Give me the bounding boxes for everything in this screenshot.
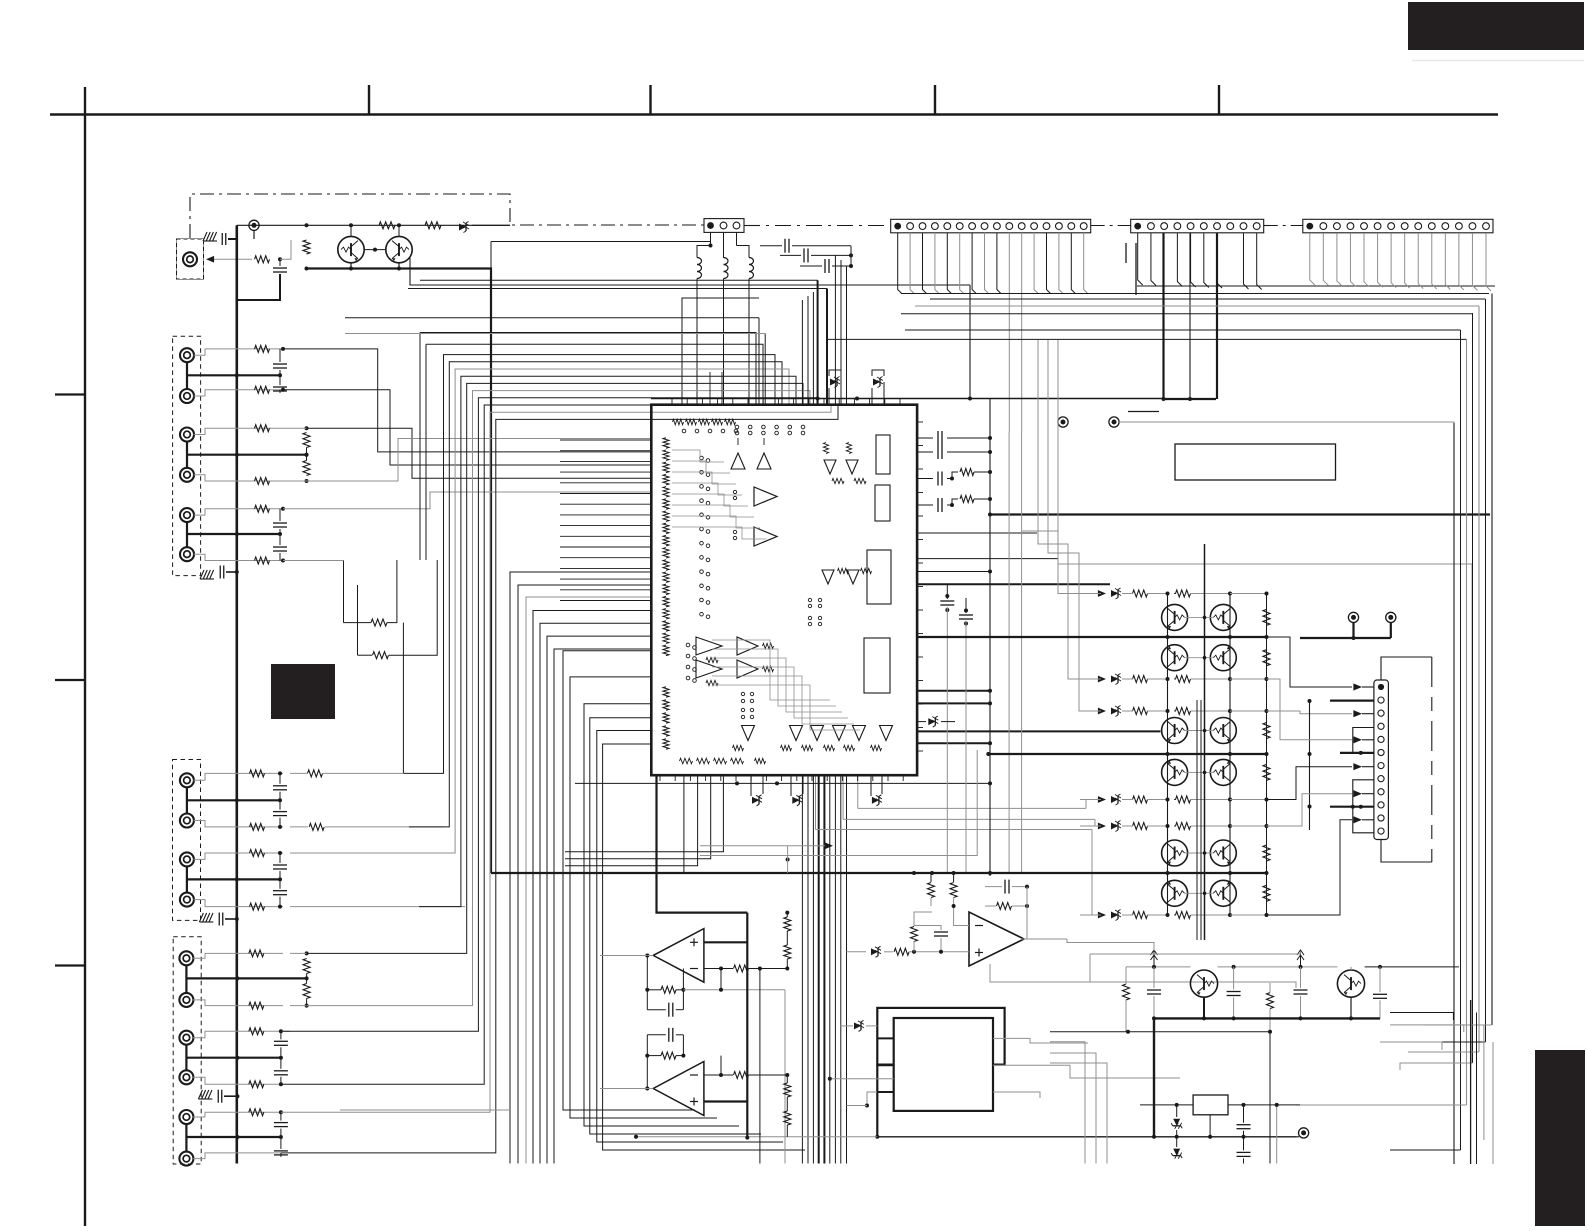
IC internal E resistor 1 (832, 478, 844, 483)
resistor above op-amp U3 2 (950, 883, 957, 898)
IC top pin risers thin (709, 372, 711, 405)
net bundle B4 drop 6 (829, 775, 831, 1163)
right margin long verticals (1470, 1000, 1472, 1164)
capacitor pair g3 tap3 (280, 1112, 282, 1120)
IC internal E resistor 2 (854, 478, 866, 483)
net bundle B4 drop 9 (846, 775, 848, 1163)
capacitor pair g3 tap2 (280, 1031, 282, 1039)
thick rail y873 (491, 872, 1267, 874)
zener below regulator 2 (1171, 1149, 1182, 1159)
IC internal rect 1 (876, 435, 890, 474)
ground + cap bottom of group2 (199, 913, 203, 922)
RCA jack J35 (179, 1110, 193, 1124)
RCA jack J22 (180, 814, 194, 828)
net IC-left drop 2 (518, 585, 651, 1164)
IC internal switch contact column (700, 456, 704, 460)
net stair 1 (1267, 637, 1353, 687)
net IC bottom elbow 4 (565, 775, 723, 852)
RCA jack J11 (180, 348, 194, 362)
title block black box top-right (1408, 2, 1584, 50)
IC right thick stub y743 (917, 742, 990, 744)
zener below IC 3 (872, 795, 882, 806)
CN103 thick drop 2 (1216, 233, 1218, 399)
capacitor C above coils 2 (803, 248, 805, 262)
power thick drop x1154 (1153, 1018, 1155, 1136)
op-amp U4 feedback cap (668, 1003, 670, 1017)
jack J31 signal wire + resistor (193, 953, 283, 958)
zener drive row y679 (1098, 676, 1106, 683)
jack pair 1-2 link (186, 362, 188, 389)
up arrow 1 (1153, 951, 1155, 965)
right bus vertical 5 (1478, 306, 1480, 1052)
transistor Q1 (338, 236, 364, 262)
net bundle B4 drop 5 (823, 775, 825, 1163)
op-amp U4 plus input thick (704, 941, 747, 943)
IC internal top resistor row (673, 419, 684, 425)
IC bottom rail (575, 782, 990, 784)
long net y280.3 (420, 279, 818, 281)
input jack J1 dashed box (177, 239, 204, 279)
cap right of IC 1 (940, 600, 954, 602)
net vertical x990 (989, 399, 991, 877)
jack tap 2 thick (187, 454, 307, 456)
net top elbow a (420, 333, 756, 405)
ground + cap bottom of group1 (200, 570, 204, 579)
wire top-right from zener (472, 224, 510, 226)
jack tap 3 thick (187, 533, 280, 535)
thick vertical x747.3 (746, 913, 748, 1138)
net riser into IC top pin 7 (826, 289, 828, 405)
right bus vertical 3 (1466, 339, 1468, 1105)
jack J14 signal wire + resistor (194, 475, 283, 481)
IC internal opamp cluster row1 b (737, 637, 758, 655)
net group1 signal 1 route (283, 349, 651, 452)
net group2/3 signal 3 route (414, 369, 789, 853)
long net y313.7 (901, 313, 1473, 315)
op-amp U4 feedback resistor (661, 986, 676, 993)
gray net into DAC 1 (830, 1078, 894, 1080)
transistor Q18 (1210, 759, 1236, 785)
net IC bottom elbow 2 (565, 775, 698, 866)
capacitor pair g2 tap1 (279, 773, 281, 783)
resistor right of U4 minus (734, 965, 749, 972)
net y1031.7 (1050, 1031, 1270, 1033)
transistor Q2 (386, 236, 412, 262)
IC internal rect 4 (864, 638, 890, 693)
RCA jack J12 (180, 389, 194, 403)
net stair 6 (1267, 820, 1353, 915)
net vertical x721 (720, 969, 722, 990)
thick net y514.5 (990, 513, 1490, 515)
empty rectangle block (1175, 444, 1336, 480)
net x1270 drop (1269, 1032, 1271, 1164)
resistor above op-amp U3 1 (928, 883, 935, 898)
long gray net y830 (816, 829, 1093, 831)
net IC-left drop 12 (597, 731, 783, 1143)
jack g2 tap 1 thick (187, 799, 280, 801)
RCA jack J33 (179, 1031, 193, 1045)
center vertical pair (1196, 700, 1198, 940)
bottom-right elbow nets (1390, 1013, 1453, 1021)
long gray net y820 (843, 818, 1095, 820)
net IC-left drop 10 (584, 704, 739, 1126)
net IC-left drop 11 (590, 718, 761, 1134)
ruler tick left 1 (55, 393, 85, 395)
ground + cap mid group3 (198, 1090, 202, 1099)
jack pair g3 5-6 link (185, 1124, 187, 1152)
inductor L3 (749, 258, 754, 265)
jack pair 3-4 link (186, 441, 188, 468)
page border vertical line (84, 115, 86, 1227)
emitter bus thick (307, 269, 492, 874)
short stub lines left of CN103 (1125, 243, 1127, 263)
RCA jack group 2 dashed box (173, 760, 201, 921)
test point TP2 (1058, 417, 1068, 427)
transistor Q22 (1210, 880, 1236, 906)
op-amp U5 (653, 1062, 704, 1116)
RCA jack group 3 dashed box (173, 937, 201, 1164)
CN103 drop 3 (1189, 233, 1191, 399)
net group1 signal 3 route (307, 428, 652, 478)
net IC-left drop 1 (510, 572, 651, 1164)
transistor Q19 (1162, 840, 1188, 866)
ruler tick left 3 (55, 964, 85, 966)
connector CN104 (14-pin) body and pins (1303, 219, 1493, 233)
coil L2 lead down to IC (723, 279, 725, 405)
net riser into IC top pin 2 (764, 334, 766, 405)
bracket pins 8-12 (1353, 780, 1374, 833)
net vertical x785 (784, 990, 786, 1164)
jack g3 tap 1 thick (186, 977, 306, 979)
IC internal bottom triangle row (742, 726, 755, 741)
op-amp U5 minus symbol (690, 1074, 698, 1076)
capacitor C above coils 1 (784, 239, 786, 253)
net riser into IC top pin 1 (758, 318, 760, 405)
net group3 signal 7 route (281, 405, 831, 1112)
net group2/3 signal 2 route (409, 362, 782, 827)
node dot J1 line (278, 257, 282, 261)
IC internal buffer triangle 1 (731, 453, 745, 469)
IC internal down triangle 1 (824, 460, 836, 474)
net group2/3 signal 6 route (307, 391, 810, 1006)
transistor Q16 (1210, 718, 1236, 744)
net IC-left drop 7 (554, 649, 651, 1164)
long net y339.4 (827, 338, 1467, 340)
IC internal opamp cluster row1 a (696, 637, 722, 655)
IC internal resistor column lower (663, 687, 669, 698)
net under U3 (990, 964, 1296, 988)
long net y306 (915, 305, 1479, 307)
CN103 thick drop 1 (1162, 233, 1164, 399)
long net y287.2 (408, 288, 827, 290)
ground cap at J1 top (203, 232, 207, 241)
DAC back box (877, 1008, 1004, 1065)
net riser into IC top pin 3 (801, 300, 803, 405)
CN102 drop bus (901, 293, 1489, 295)
thick route from IC (657, 775, 748, 912)
net IC-left drop 4 (533, 611, 651, 1164)
right bus bottom elbow 5 (1416, 1041, 1486, 1043)
IC bottom pin stubs (659, 775, 661, 781)
DAC left edge thick drop (876, 1065, 878, 1137)
net bundle B4 drop 7 (834, 775, 836, 1163)
wire CN101 pin3 down (736, 233, 738, 246)
emitter resistor link vertical (1266, 594, 1268, 916)
net x1276.7 drop (1276, 1105, 1278, 1164)
Q1 emitter (350, 263, 352, 269)
net group3 signal 8 route (281, 405, 838, 1153)
right bus bottom elbow 1 (1390, 1149, 1461, 1151)
RCA jack J34 (179, 1070, 193, 1084)
jack J12 signal wire + resistor (194, 390, 283, 396)
transistor Q32 (1337, 970, 1364, 997)
ruler tick top 5 (1218, 85, 1220, 115)
net IC bottom elbow right 3 (815, 775, 817, 829)
resistor power 1 (1123, 984, 1130, 1000)
net vertical x1309.5 (1309, 701, 1311, 830)
gray feed right transistor (1350, 967, 1352, 970)
up arrow 2 (1300, 951, 1302, 965)
IC right thick stub y703 (917, 702, 990, 704)
jack J33 signal wire + resistor (193, 1031, 283, 1037)
net group1 signal 5 route (283, 492, 651, 509)
op-amp U5 minus input wire (704, 1074, 733, 1076)
connector CN101 (3-pin) body (704, 219, 744, 233)
thick wire pin6 (1340, 752, 1374, 754)
test point TP3 (1109, 417, 1119, 427)
gray net from x977 (700, 750, 977, 856)
net stair 4 (1267, 767, 1353, 800)
dash-dot wire CN101 to CN102 (744, 225, 890, 227)
connector CN102 (16-pin) body and pins (891, 219, 1091, 233)
net group3 signal 6 route (281, 405, 824, 1084)
transistor column link left (1167, 594, 1169, 916)
IC top pin stubs (671, 399, 673, 405)
wire CN101 pin2 down (723, 233, 725, 258)
transistor Q20 (1210, 840, 1236, 866)
net vertical x759.9 (759, 969, 761, 1164)
emitter resistor column (1263, 609, 1270, 625)
capacitor C below J1 node (279, 259, 281, 266)
net bundle B4 drop 4 (818, 775, 820, 1163)
CN104 pin drop wires (1310, 233, 1315, 285)
jack pair g2 3-4 link (186, 866, 188, 893)
capacitor pair g2 tap2 (279, 853, 281, 863)
net IC-left drop 5 (540, 623, 651, 1163)
connector CN105 pins (1378, 684, 1384, 690)
net bundle B4 drop 8 (840, 775, 842, 1163)
right bus bottom elbow 3 (1400, 1063, 1473, 1070)
resistor right of U5 minus (734, 1072, 749, 1079)
test point TP4 (1348, 612, 1358, 622)
wire y241.5 to CN101 (491, 241, 711, 243)
gray elbow net 7 (1092, 830, 1100, 916)
connector CN103 (10-pin) body and pins (1131, 219, 1264, 233)
CN103 pin drop wires (1138, 233, 1143, 285)
net group2/3 signal 5 route (307, 383, 803, 953)
CN101 pin 3 (733, 222, 740, 229)
net group2/3 signal 4 route (419, 376, 796, 906)
op-amp U4 minus symbol (690, 968, 698, 970)
DAC left pin 1 (877, 1037, 893, 1039)
coil L1 lead down to IC (696, 279, 698, 405)
right bus vertical 1 (1453, 423, 1455, 1164)
resistor pair x787 upper (784, 917, 791, 931)
cap right of IC 2 (959, 614, 973, 616)
IC internal staircase wires lower (712, 640, 830, 700)
op-amp U5 plus symbol (690, 1101, 698, 1103)
net IC-left drop 3 (526, 597, 651, 1164)
cap power 1 (1147, 989, 1161, 991)
right bus bottom elbow 2 (1296, 1104, 1467, 1106)
op-amp U5 input node (645, 1087, 649, 1091)
cap right of regulator 1 (1237, 1124, 1251, 1126)
net IC bottom elbow right 2 (842, 775, 844, 819)
wire cap join vertical (850, 246, 852, 266)
long net y330 (905, 329, 1461, 331)
zener drive row y826 (1098, 823, 1106, 830)
vertical resistor pair mid group1 (303, 433, 310, 448)
gray feeds to power transistors (1067, 939, 1154, 951)
U3 minus input wire (954, 906, 969, 926)
transistor Q21 (1162, 880, 1188, 906)
IC internal top switch row (735, 425, 739, 429)
wire Q2 to right net (410, 258, 970, 285)
long net y333.5 (345, 333, 765, 335)
zener right of IC (928, 718, 935, 725)
RCA jack group 1 dashed box (173, 336, 201, 575)
regulator IC box (1193, 1095, 1228, 1115)
thick wire pin10 (1330, 806, 1374, 808)
op-amp U3 (969, 912, 1024, 966)
jack J34 signal wire + resistor (193, 1077, 283, 1084)
cap power 2 (1227, 991, 1241, 993)
zener drive row y593 (1098, 590, 1106, 597)
jack J11 signal wire + resistor (194, 349, 283, 355)
IC internal opamp cluster row2 b (737, 660, 758, 678)
right bus bottom elbow 6 (1424, 1024, 1492, 1026)
resistor R top line 1 (379, 222, 395, 229)
IC internal resistor column (663, 438, 669, 449)
thick rail y754 (988, 753, 1266, 755)
inductor L2 (724, 258, 729, 265)
IC internal mid switch cluster (808, 598, 811, 601)
gray elbow net 3 (1048, 340, 1100, 711)
resistor R top line 2 (425, 222, 441, 229)
jack J23 signal wire + resistor (194, 853, 284, 859)
thick rail y873 extension dots (912, 871, 916, 875)
input jack J1 (183, 252, 197, 266)
RCA jack J24 (180, 893, 194, 907)
U3 plus network resistor (911, 927, 918, 942)
right bus vertical 6 (1485, 299, 1487, 1042)
RCA jack J31 (179, 951, 193, 965)
capacitor C above coils 3 (824, 259, 826, 273)
coil L3 lead down to IC (748, 279, 750, 405)
Q1 collector stub (350, 225, 352, 236)
op-amp U5 feedback resistor (661, 1052, 676, 1059)
jack g2 tap 2 thick (187, 878, 280, 880)
net group3 signal 5 route (281, 398, 817, 1032)
black square label mid-left (271, 664, 335, 719)
wire CN101 pin1 down (710, 233, 712, 246)
ruler tick top 2 (368, 85, 370, 115)
net y989.8 gray (683, 989, 785, 991)
ruler tick top 1 (84, 87, 86, 115)
zener D top line (459, 224, 466, 231)
transistor column link right (1229, 594, 1231, 916)
IC right thin net y558 (917, 558, 1058, 560)
zener below IC 2 (792, 795, 802, 806)
Q2 collector stub (398, 225, 400, 236)
resistor network box above label (343, 561, 345, 623)
arrows into CN105 (1353, 683, 1362, 690)
long net y299 (930, 298, 1486, 300)
IC internal staircase wires upper (672, 450, 724, 462)
net bundle B4 drop 2 (807, 775, 809, 1163)
thick wire pin2 (1330, 699, 1374, 701)
transistor Q14 (1210, 645, 1236, 671)
gray vertical x1021.6 (1021, 432, 1023, 873)
jack J32 signal wire + resistor (193, 1000, 283, 1006)
IC U101 body (651, 405, 917, 776)
CN105 outer loop (1381, 657, 1432, 680)
inductor L1 (697, 258, 702, 265)
Q32 emitter (1350, 997, 1352, 1018)
gray long rail y1110 (340, 1109, 511, 1111)
zener drive row y711 (1098, 708, 1106, 715)
net IC-left drop 6 (547, 636, 651, 1163)
thick net into TP4/TP5 (1300, 637, 1391, 639)
jack tap 1 thick (187, 374, 280, 376)
capacitor pair under tap1 (279, 349, 281, 362)
RCA jack J16 (180, 547, 194, 561)
test point TP5 (1386, 612, 1396, 622)
gray elbow net 1 (1022, 531, 1100, 594)
IC left pin wires (560, 439, 651, 441)
DAC left pin 2 (877, 1064, 893, 1066)
jack J16 signal wire + resistor (194, 554, 283, 560)
jack g3 tap 3 thick (186, 1136, 281, 1138)
cap power 3 (1294, 989, 1308, 991)
RCA jack J15 (180, 508, 194, 522)
IC internal down triangle 2 (846, 460, 858, 474)
IC right thick stub y731 (917, 730, 1160, 732)
gray vertical x1009 (1008, 432, 1010, 873)
CN103 drop bus (1137, 285, 1495, 287)
net stair 2 (1267, 711, 1353, 714)
net IC-left drop 13 (603, 744, 805, 1150)
riser x404 from jack group2 (402, 669, 404, 773)
power gray rail (1126, 966, 1190, 968)
right bus vertical 2 (1460, 330, 1462, 1150)
RCA jack J32 (179, 993, 193, 1007)
op-amp U4 output node (645, 954, 649, 958)
IC internal buffer triangle 2 (757, 453, 771, 469)
arrow into J1 (206, 256, 214, 263)
jack J35 signal wire + resistor (193, 1112, 283, 1117)
transistor Q17 (1162, 759, 1188, 785)
IC right thick stub y691 (917, 690, 990, 692)
IC internal bottom resistor row (680, 758, 693, 764)
RCA jack J23 (180, 852, 194, 866)
gray elbow net 6 (1095, 819, 1100, 826)
zener below IC 1 (752, 795, 762, 806)
net group1 signal 6 route (283, 560, 344, 562)
gray net into DAC 2 (867, 1092, 877, 1106)
jack J24 signal wire + resistor (194, 900, 284, 907)
RCA jack J13 (180, 428, 194, 442)
